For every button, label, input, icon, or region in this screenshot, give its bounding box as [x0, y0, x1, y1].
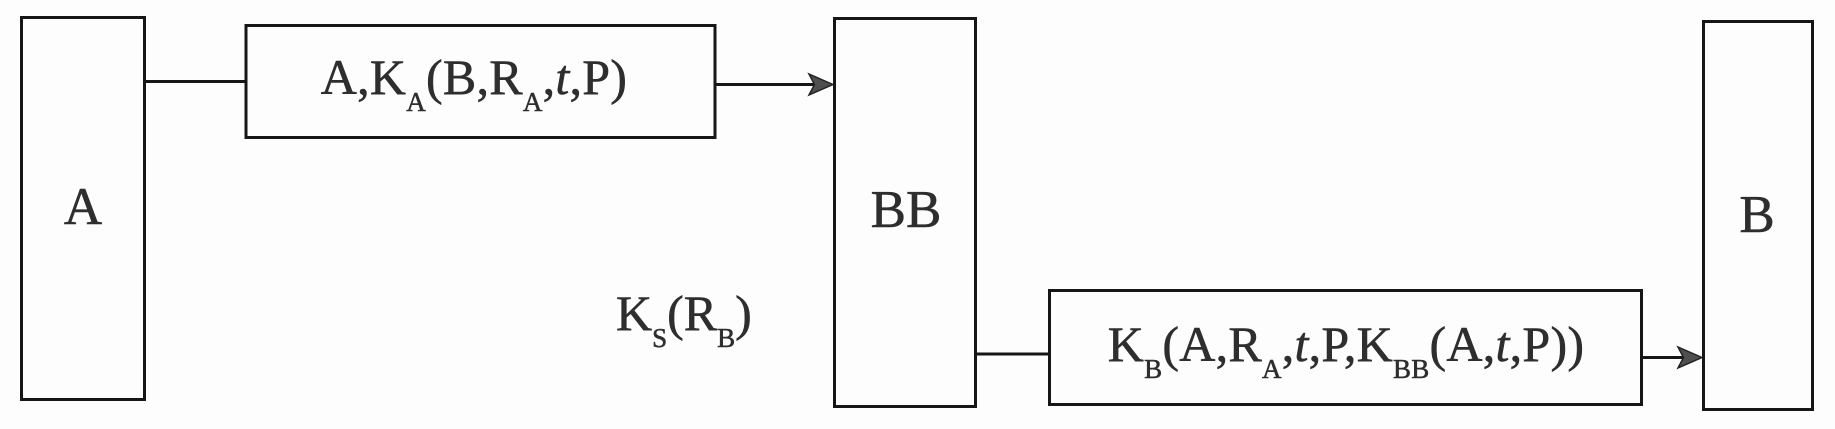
arrowhead into BB	[809, 74, 833, 95]
wire A to message box 1	[145, 80, 246, 83]
svg-text:A,KA(B,RA,t,P): A,KA(B,RA,t,P)	[321, 49, 627, 117]
wire message box 2 to B	[1643, 356, 1687, 359]
message box 2	[1050, 291, 1642, 405]
svg-text:KS(RB): KS(RB)	[616, 285, 752, 353]
box BB	[835, 19, 976, 407]
svg-text:BB: BB	[871, 181, 942, 239]
arrowhead into B	[1678, 347, 1702, 368]
box B	[1704, 22, 1813, 410]
svg-text:KB(A,RA,t,P,KBB(A,t,P)): KB(A,RA,t,P,KBB(A,t,P))	[1108, 316, 1585, 384]
svg-text:B: B	[1739, 186, 1774, 244]
box A	[22, 18, 145, 400]
message box 1	[246, 26, 715, 138]
svg-text:A: A	[64, 178, 102, 236]
wire message box 1 to BB	[716, 83, 816, 86]
wire BB to message box 2	[977, 353, 1050, 356]
